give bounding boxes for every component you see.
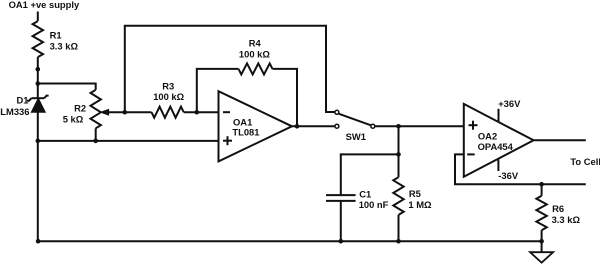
potentiometer R2	[63, 90, 125, 129]
wire junction down to C1/R5	[398, 126, 400, 154]
wire C1 top branch	[341, 154, 399, 195]
svg-text:R1: R1	[50, 29, 62, 40]
wire vertical D1 node to ground rail	[37, 141, 39, 241]
wire D1 anode down	[37, 112, 39, 141]
node dot C1 bottom	[339, 239, 344, 244]
svg-text:OA1 +ve supply: OA1 +ve supply	[9, 0, 80, 10]
wire R4 right branch down to output	[273, 69, 298, 126]
wire OA1 + input line (D1 node to op-amp)	[38, 140, 219, 142]
diode D1 LM336 (zener)	[0, 95, 48, 117]
svg-text:R6: R6	[552, 203, 564, 214]
resistor R5	[393, 177, 432, 215]
node dot feedback/R6 junction	[539, 182, 544, 187]
wire top feedback: wiper node up and across to SW1	[125, 26, 335, 112]
node junction dot to R2 branch	[36, 81, 41, 86]
wire -36V power pin	[497, 160, 499, 172]
wire R3 to inverting input	[184, 111, 219, 113]
node dot C1/R5 top junction	[396, 152, 401, 157]
node dot ground rail left corner	[36, 239, 41, 244]
wire ground rail (bottom)	[38, 240, 542, 242]
svg-text:R5: R5	[409, 188, 421, 199]
svg-text:To Cell: To Cell	[570, 156, 600, 167]
op-amp U1 OA1 TL081	[219, 91, 292, 161]
wire R2 bottom lead	[95, 128, 97, 141]
svg-text:SW1: SW1	[346, 131, 366, 142]
svg-text:C1: C1	[359, 188, 371, 199]
resistor R4	[239, 37, 273, 74]
resistor R1	[33, 21, 79, 57]
switch SW1	[335, 110, 375, 142]
wire supply lead to R1	[37, 12, 39, 22]
node dot on R1-D1 wire	[36, 67, 41, 72]
wire R6 top lead	[541, 184, 543, 196]
wire wiper node to R3	[125, 111, 152, 113]
wire C1 bottom lead	[340, 201, 342, 241]
svg-text:3.3 kΩ: 3.3 kΩ	[50, 41, 79, 52]
capacitor C1	[326, 188, 389, 209]
wire R6 bottom lead	[541, 230, 543, 241]
wire junction to OA2 + input	[399, 125, 464, 127]
svg-text:LM336: LM336	[0, 106, 29, 117]
svg-text:100 nF: 100 nF	[359, 199, 389, 210]
svg-text:+36V: +36V	[498, 98, 521, 109]
node dot R5 bottom	[396, 239, 401, 244]
svg-text:OA2: OA2	[478, 131, 497, 142]
node dot D1/+input junction	[36, 139, 41, 144]
node dot R6/ground junction	[539, 239, 544, 244]
svg-text:5 kΩ: 5 kΩ	[63, 114, 84, 125]
wire OA2 output to cell	[534, 139, 586, 141]
node dot wiper/R3/feedback junction	[123, 110, 128, 115]
svg-text:R2: R2	[74, 103, 86, 114]
node dot R2 bottom junction	[93, 139, 98, 144]
node dot R3/R4 junction	[195, 110, 200, 115]
wire R5 top lead	[398, 154, 400, 177]
op-amp U2 OA2 OPA454	[464, 104, 534, 177]
svg-text:D1: D1	[17, 95, 29, 106]
wire OA1 output to SW1	[292, 125, 335, 127]
wire R4 left branch up	[197, 69, 239, 112]
svg-text:100 kΩ: 100 kΩ	[153, 91, 184, 102]
svg-text:3.3 kΩ: 3.3 kΩ	[552, 214, 581, 225]
wire OA2 feedback (inverting input loop)	[455, 154, 586, 184]
ground	[530, 241, 553, 263]
resistor R3	[152, 81, 185, 118]
svg-text:R4: R4	[249, 37, 262, 48]
svg-text:1 MΩ: 1 MΩ	[408, 199, 432, 210]
wire +36V power pin	[498, 109, 500, 123]
wire SW1 common to junction	[376, 125, 399, 127]
wire branch to R2 top	[38, 84, 96, 90]
wire R5 bottom lead	[398, 215, 400, 241]
wire R1 bottom to D1 cathode	[37, 57, 39, 98]
svg-text:TL081: TL081	[232, 126, 259, 137]
svg-text:100 kΩ: 100 kΩ	[239, 49, 270, 60]
node dot OA1 output/R4 junction	[295, 124, 300, 129]
resistor R6	[536, 196, 580, 230]
svg-text:OPA454: OPA454	[478, 141, 514, 152]
node dot switch common junction	[396, 124, 401, 129]
svg-text:-36V: -36V	[498, 170, 519, 181]
